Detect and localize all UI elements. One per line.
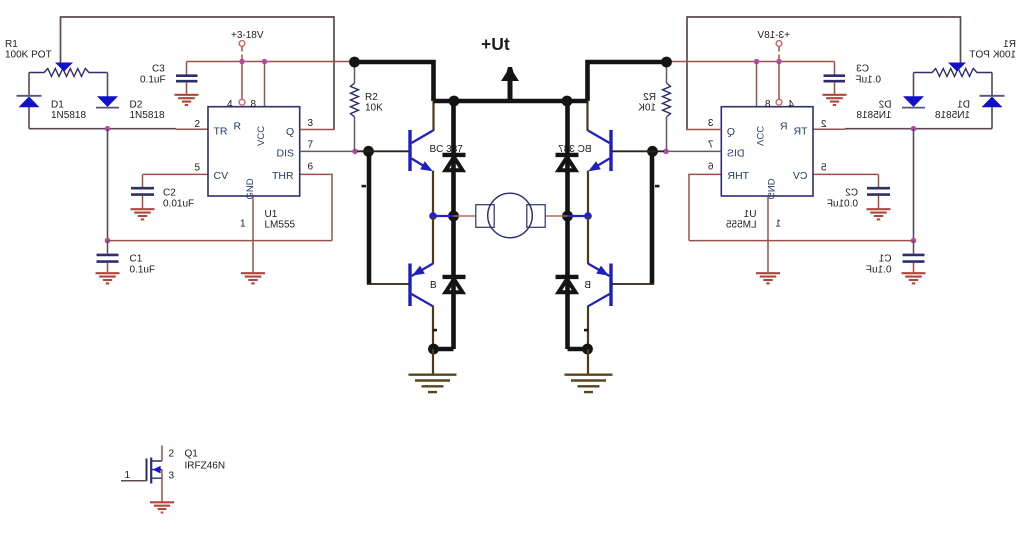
wire thick supply elbow	[355, 62, 434, 101]
wire Q1 source	[161, 470, 163, 502]
ground C2	[131, 209, 155, 219]
wire bottom rail to pin2	[29, 128, 176, 130]
wire pin6 THR	[300, 173, 333, 175]
wire emitter Q3	[432, 306, 434, 350]
label D1	[51, 100, 86, 122]
wire pin5 CV	[143, 173, 209, 175]
wire pot left down	[28, 73, 30, 96]
svg-text:C3: C3	[152, 64, 165, 75]
svg-text:3: 3	[169, 471, 175, 482]
label C3	[140, 64, 166, 86]
wire pin7 DIS out	[300, 150, 355, 152]
svg-text:LM555: LM555	[265, 220, 296, 231]
svg-text:THR: THR	[272, 170, 294, 182]
svg-text:0.01uF: 0.01uF	[163, 199, 194, 210]
diode flyback bottom	[443, 277, 466, 292]
wire base Q2	[357, 150, 410, 152]
svg-text:10K: 10K	[365, 103, 383, 114]
svg-text:D2: D2	[130, 100, 143, 111]
wire emitter Q2	[432, 171, 434, 217]
label C1	[130, 254, 156, 276]
svg-text:1: 1	[125, 470, 131, 481]
wire D1 down	[28, 107, 30, 129]
wire wiper riser	[60, 16, 62, 63]
ground C3	[175, 95, 199, 105]
wire collector Q3	[432, 216, 434, 264]
ground U1	[241, 273, 265, 283]
wire V+ rail	[187, 61, 353, 63]
svg-text:R1: R1	[5, 39, 18, 50]
junction motor right of node dot	[448, 211, 459, 222]
op-amp U1 LM555 box	[208, 107, 300, 196]
svg-text:R: R	[234, 121, 242, 133]
junction node C1	[105, 238, 111, 244]
svg-text:1: 1	[240, 219, 246, 230]
ground Q1	[150, 502, 174, 512]
svg-text:7: 7	[308, 140, 314, 151]
capacitor C1	[97, 241, 119, 273]
mirrored right half	[545, 16, 1016, 392]
svg-text:TR: TR	[214, 126, 228, 138]
svg-text:GND: GND	[245, 178, 256, 199]
svg-text:+3-18V: +3-18V	[231, 30, 264, 41]
wire motor node blue	[433, 215, 454, 217]
transistor Q2 BC337 top	[410, 130, 433, 171]
wire pin3 riser	[333, 16, 335, 129]
svg-text:0.1uF: 0.1uF	[140, 75, 166, 86]
wire pin8 VCC	[264, 62, 266, 107]
wire pin2 TR	[176, 128, 208, 130]
svg-text:0.1uF: 0.1uF	[130, 265, 156, 276]
ground bridge	[409, 375, 457, 392]
diode D2 1N5818	[96, 96, 119, 107]
svg-text:VCC: VCC	[256, 126, 267, 146]
wire ground stem	[432, 349, 434, 374]
svg-text:+Ut: +Ut	[481, 34, 510, 54]
junction emitter ground dot	[428, 344, 439, 355]
svg-text:6: 6	[308, 162, 314, 173]
svg-text:2: 2	[169, 449, 175, 460]
svg-text:R2: R2	[365, 92, 378, 103]
wire base bus down	[367, 151, 372, 284]
node base drive dot	[363, 146, 374, 157]
svg-text:8: 8	[251, 99, 257, 110]
transistor Q3 BC327 bottom	[410, 264, 433, 307]
svg-text:DIS: DIS	[277, 148, 295, 160]
svg-text:1N5818: 1N5818	[130, 110, 165, 121]
junction pin4 rail	[239, 59, 245, 65]
wire THR riser	[331, 174, 333, 240]
transistor Q1 IRFZ46N	[147, 458, 163, 484]
svg-text:U1: U1	[265, 209, 278, 220]
svg-text:3: 3	[308, 118, 314, 129]
label U1 LM555	[265, 209, 296, 231]
diode D1 1N5818	[17, 96, 42, 107]
wire diode return thick	[434, 347, 454, 352]
junction R2 DIS	[352, 149, 358, 155]
label R2 10K	[365, 92, 383, 114]
label D2	[130, 100, 165, 122]
svg-text:CV: CV	[214, 170, 229, 182]
wire top rail	[61, 16, 335, 18]
power +3-18V	[231, 30, 264, 62]
junction pin8 rail	[262, 59, 268, 65]
svg-text:5: 5	[195, 163, 201, 174]
ground C1	[96, 273, 120, 283]
wire motor lead	[454, 215, 477, 217]
svg-text:Q1: Q1	[185, 449, 199, 460]
diode flyback top	[443, 155, 466, 170]
wire main top bus	[434, 99, 588, 104]
power +Ut arrow	[501, 67, 519, 103]
wire pot right down	[107, 73, 109, 97]
resistor R2 10K	[351, 62, 359, 151]
svg-text:C1: C1	[130, 254, 143, 265]
svg-text:C2: C2	[163, 188, 176, 199]
wire Q1 drain	[161, 446, 163, 462]
label R1 100K POT	[5, 39, 52, 61]
svg-text:100K POT: 100K POT	[5, 50, 52, 61]
potentiometer R1	[29, 63, 108, 77]
wire pin1 GND down	[252, 196, 254, 272]
wire base Q3	[367, 283, 410, 285]
svg-text:Q: Q	[286, 126, 294, 138]
junction node D2	[105, 126, 111, 132]
wire D2 node down	[107, 129, 109, 241]
junction supply dot	[349, 57, 360, 68]
capacitor C3	[176, 62, 198, 94]
label C2	[163, 188, 194, 210]
wire pin4 R	[239, 62, 245, 106]
wire Q1 gate	[121, 480, 147, 482]
wire pin3 Q out	[300, 129, 335, 131]
svg-text:B: B	[430, 280, 437, 291]
tick artifact base	[362, 185, 367, 188]
svg-text:D1: D1	[51, 100, 64, 111]
wire ground rail	[108, 240, 333, 242]
wire cathode bus vertical	[451, 101, 456, 349]
junction motor node blue dot	[429, 212, 437, 220]
svg-text:1N5818: 1N5818	[51, 110, 86, 121]
svg-text:2: 2	[195, 119, 201, 130]
motor M	[476, 193, 545, 238]
junction bus top dot	[449, 96, 460, 107]
svg-text:IRFZ46N: IRFZ46N	[185, 461, 226, 472]
wire collector Q2	[432, 100, 434, 131]
tick artifact emitter	[433, 329, 437, 332]
svg-text:4: 4	[227, 99, 233, 110]
capacitor C2	[131, 174, 154, 208]
